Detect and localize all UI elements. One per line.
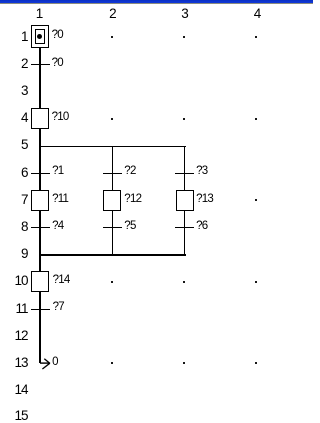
row header 12 [0, 331, 28, 341]
step ?12 box (row 7 col 2) [103, 190, 121, 211]
title bar blue strip [0, 0, 313, 3]
column header 3 [170, 9, 200, 19]
row header 1 [0, 32, 28, 42]
grid dot row10 col2 [111, 281, 113, 283]
initial step S0 active dot [37, 34, 42, 39]
transition ?6 tick (row 8 col 3) [175, 227, 194, 228]
transition ?2 tick (row 6 col 2) [103, 173, 122, 174]
wire col1: step ?11 to merge [39, 210, 40, 256]
row header 15 [0, 411, 28, 421]
transition ?4 tick (row 8 col 1) [31, 227, 50, 228]
transition ?5 tick (row 8 col 2) [103, 227, 122, 228]
grid dot row4 col4 [255, 118, 257, 120]
row header 9 [0, 249, 28, 259]
wire col1: step ?10 to branch [39, 128, 40, 190]
step ?13 box (row 7 col 3) [176, 190, 194, 211]
row header 11 [0, 304, 28, 314]
row header 6 [0, 168, 28, 178]
transition ?1 tick (row 6 col 1) [31, 173, 50, 174]
step ?10 box [31, 108, 49, 129]
transition ?7 tick (row 11 col 1) [31, 309, 50, 310]
grid dot row1 col4 [255, 36, 257, 38]
label ?10 of step [52, 113, 69, 121]
transition T0 tick [31, 64, 50, 65]
grid dot row1 col2 [111, 36, 113, 38]
wire col1: S0 to step ?10 [39, 48, 40, 108]
alternative branch convergence line (row 9) [39, 254, 186, 255]
grid dot row10 col4 [255, 281, 257, 283]
label ?3 [196, 167, 207, 175]
wire col3: branch down to step ?13 [184, 146, 185, 191]
row header 7 [0, 195, 28, 205]
row header 10 [0, 276, 28, 286]
row header 8 [0, 222, 28, 232]
label ?11 [52, 195, 68, 203]
initial step S0 inner box [35, 29, 46, 45]
row header 3 [0, 86, 28, 96]
jump arrow to step 0 (row 13) [38, 353, 54, 372]
label ?0 of initial step S0 [52, 31, 63, 39]
label ?4 [52, 222, 63, 230]
grid dot row13 col2 [111, 362, 113, 364]
label ?1 [52, 167, 63, 175]
row header 5 [0, 140, 28, 150]
wire col1: merge to step ?14 [39, 254, 40, 271]
label ?7 [53, 303, 64, 311]
grid dot row1 col3 [183, 36, 185, 38]
grid dot row13 col3 [183, 362, 185, 364]
column header 1 [24, 9, 54, 19]
label ?14 [53, 276, 70, 284]
title bar lower grey edge [0, 3, 313, 4]
row header 2 [0, 59, 28, 69]
grid dot row4 col2 [111, 118, 113, 120]
transition ?3 tick (row 6 col 3) [175, 173, 194, 174]
label ?5 [124, 222, 135, 230]
wire col1: step ?14 to jump arrow [39, 292, 40, 363]
grid dot row13 col4 [255, 362, 257, 364]
column header 4 [242, 9, 272, 19]
label ?0 of transition T0 [52, 59, 63, 67]
label ?6 [196, 222, 207, 230]
label ?13 [196, 195, 213, 203]
grid dot row7 col4 [255, 199, 257, 201]
wire col2: step ?12 to merge [112, 210, 113, 256]
wire col3: step ?13 to merge [184, 210, 185, 256]
row header 14 [0, 385, 28, 395]
grid dot row4 col3 [183, 118, 185, 120]
grid dot row10 col3 [183, 281, 185, 283]
row header 13 [0, 358, 28, 368]
label 0 of jump target [52, 358, 58, 366]
row header 4 [0, 113, 28, 123]
wire col2: branch down to step ?12 [112, 146, 113, 191]
label ?2 [124, 167, 135, 175]
initial step S0 outer box [31, 25, 49, 48]
column header 2 [97, 9, 127, 19]
step ?14 box (row 10 col 1) [31, 271, 49, 292]
alternative branch divergence line (row 5) [39, 146, 186, 147]
label ?12 [124, 195, 141, 203]
step ?11 box (row 7 col 1) [31, 190, 49, 211]
